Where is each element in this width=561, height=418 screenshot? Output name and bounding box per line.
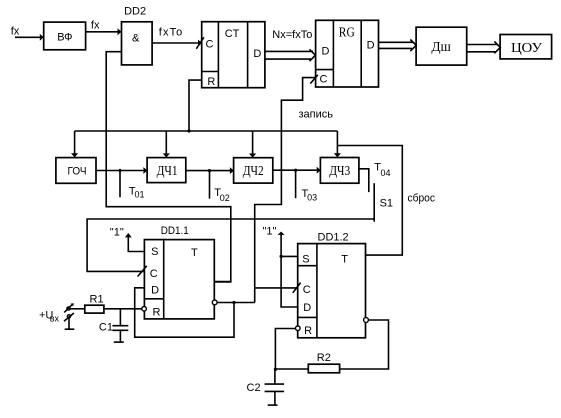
node junction dot DD1.1 output	[232, 301, 235, 304]
svg-text:fx: fx	[91, 19, 100, 31]
svg-text:вх: вх	[50, 314, 60, 324]
label C2	[247, 382, 261, 394]
node fx label on VF-DD2 wire	[91, 19, 100, 31]
svg-text:C1: C1	[99, 321, 113, 333]
svg-text:DD1.2: DD1.2	[318, 232, 349, 244]
block DCh2 divider	[234, 158, 273, 183]
svg-text:ЦОУ: ЦОУ	[511, 41, 542, 56]
block GOCh reference oscillator	[56, 158, 96, 184]
svg-text:R: R	[207, 76, 215, 88]
wire DD2 second input from DD1.1 direct output	[106, 52, 231, 282]
wire net to DD1.2 C input	[255, 287, 298, 289]
wire DD1.1 D feedback from Q inverse	[135, 288, 234, 337]
pin DD1.1 R inverse input bubble	[142, 307, 147, 312]
block Dsh decoder	[416, 27, 467, 65]
svg-text:fx: fx	[11, 26, 20, 38]
svg-text:CT: CT	[225, 28, 240, 40]
node T01 tap dot and tick	[118, 169, 121, 197]
svg-text:C: C	[320, 74, 328, 86]
wire DD1.1 S input to logic one arrow	[125, 233, 144, 252]
wire Dsh to TsOU (double line with chevron)	[467, 42, 501, 54]
node T03 label	[302, 188, 318, 202]
svg-text:01: 01	[135, 190, 145, 200]
svg-text:04: 04	[381, 168, 391, 178]
pin DD1.1 inverse output bubble	[212, 300, 217, 305]
node S1 label	[380, 198, 393, 210]
flip-flop DD1.1	[144, 240, 214, 319]
svg-text:C: C	[206, 39, 214, 51]
resistor R2	[308, 364, 339, 373]
svg-text:Nx=fxTo: Nx=fxTo	[272, 29, 312, 41]
wire DD1.2 S and D tie with logic one arrow	[278, 232, 298, 308]
svg-text:T: T	[191, 247, 198, 259]
label DD1.2	[318, 232, 349, 244]
block DCh1 divider	[147, 158, 186, 183]
wire bus arrow into DCh3	[334, 131, 341, 157]
svg-text:R: R	[153, 306, 161, 318]
svg-text:S: S	[302, 253, 309, 265]
wire CT R input to reset bus	[189, 80, 202, 131]
wire DCh1 to DCh2 with arrow	[186, 167, 234, 174]
svg-text:C2: C2	[247, 382, 261, 394]
svg-text:ДЧ1: ДЧ1	[157, 164, 178, 179]
svg-text:03: 03	[307, 192, 317, 202]
svg-text:D: D	[367, 40, 375, 52]
svg-text:запись: запись	[299, 109, 334, 121]
svg-text:D: D	[151, 284, 159, 296]
node T01 label	[129, 186, 145, 200]
svg-text:сброс: сброс	[408, 193, 436, 205]
svg-text:fxTo: fxTo	[159, 26, 183, 38]
label C1	[99, 321, 113, 333]
svg-text:ВФ: ВФ	[57, 31, 72, 43]
svg-text:D: D	[303, 302, 311, 314]
wire bus arrow into DCh1	[163, 131, 170, 158]
wire CT D output bus to RG (double line with chevron)	[265, 49, 316, 61]
node logic one label DD1.2	[263, 225, 277, 237]
wire zapis from RG C down to DD1.2 C net	[255, 78, 316, 303]
svg-text:ГОЧ: ГОЧ	[68, 166, 87, 178]
pin RG C dynamic input slash	[310, 75, 318, 84]
svg-text:&: &	[132, 32, 140, 44]
wire R1 to DD1.1 R input	[104, 308, 142, 310]
svg-text:DD1.1: DD1.1	[161, 225, 189, 237]
svg-text:R2: R2	[317, 352, 331, 364]
resistor R1	[85, 305, 104, 313]
wire DD1.2 R input to R2 C2 junction	[275, 329, 295, 370]
svg-text:S1: S1	[380, 198, 393, 210]
node sbros label	[408, 193, 436, 205]
switch SB input button	[64, 303, 74, 329]
wire DCh3 output stub to switch	[359, 169, 369, 192]
wire sbros from DD1.2 output to bus	[337, 146, 402, 256]
pin DD1.2 C dynamic input slash	[293, 283, 301, 293]
svg-text:T: T	[341, 253, 348, 265]
node junction dot bus CT R tap	[187, 129, 190, 132]
wire fx to VF with arrow	[15, 34, 44, 41]
svg-text:ДЧ2: ДЧ2	[243, 164, 264, 179]
flip-flop DD1.2	[298, 244, 366, 338]
pin CT C dynamic input slash	[196, 37, 204, 49]
wire bus arrow into GOCh	[71, 131, 78, 157]
svg-text:"1": "1"	[110, 227, 124, 239]
svg-text:ДЧ3: ДЧ3	[329, 164, 350, 179]
node T02 tap dot and tick	[208, 169, 211, 199]
gate DD2 AND	[122, 22, 153, 65]
svg-text:Дш: Дш	[431, 40, 451, 55]
block VF (input shaper)	[44, 22, 86, 50]
svg-text:C: C	[150, 268, 158, 280]
node junction dot R2 C2	[274, 368, 277, 371]
capacitor C1	[112, 309, 128, 342]
node T03 tap dot and tick	[294, 169, 297, 199]
node zapis label	[299, 109, 334, 121]
node T04 label	[374, 162, 390, 178]
svg-text:D: D	[322, 46, 330, 58]
node T02 label	[214, 187, 230, 203]
node logic one label DD1.1	[110, 227, 124, 239]
wire DD2 output to CT C with arrow	[152, 40, 202, 47]
node +Uvx label	[39, 310, 59, 324]
node junction dot DD1.2 S	[280, 255, 283, 258]
svg-text:R1: R1	[90, 293, 104, 305]
wire RG output to Dsh (double line with chevron)	[379, 40, 417, 52]
wire DCh2 to DCh3 with arrow	[273, 167, 321, 174]
wire DD1.1 inverse output to net	[217, 302, 255, 304]
register RG	[316, 20, 379, 87]
node fx input label	[11, 26, 20, 38]
wire bus arrow into DCh2	[249, 131, 256, 158]
svg-text:"1": "1"	[263, 225, 277, 237]
label DD2	[124, 5, 146, 17]
node fxTo label	[159, 26, 183, 38]
node Nx=fxTo label	[272, 29, 312, 41]
wire reset bus horizontal	[75, 130, 338, 132]
svg-text:D: D	[253, 48, 261, 60]
block TsOU digital display	[500, 35, 551, 59]
pin DD1.1 C dynamic input slash	[138, 266, 147, 277]
svg-text:C: C	[303, 284, 311, 296]
label R1	[90, 293, 104, 305]
svg-text:DD2: DD2	[124, 5, 146, 17]
svg-text:R: R	[304, 325, 312, 337]
capacitor C2	[265, 369, 285, 405]
svg-text:02: 02	[220, 193, 230, 203]
wire DD1.2 inverse output through R2	[340, 320, 389, 369]
svg-text:S: S	[151, 246, 158, 258]
wire DD1.1 direct output to DD2 branch	[214, 281, 231, 283]
wire VF to DD2 with arrow	[86, 28, 122, 35]
svg-text:RG: RG	[339, 25, 355, 40]
block DCh3 divider	[320, 158, 359, 184]
wire R2 to junction	[275, 368, 308, 370]
counter CT	[202, 22, 265, 88]
label R2	[317, 352, 331, 364]
pin DD1.2 inverse output bubble	[364, 318, 369, 323]
switch S1 contact bar	[373, 183, 375, 222]
wire button to R1	[70, 308, 85, 310]
pin DD1.2 R inverse input bubble	[296, 326, 301, 331]
wire S1 line to DD1.1 C input	[87, 219, 374, 271]
wire GOCh to DCh1 with arrow	[96, 167, 147, 174]
label DD1.1	[161, 225, 189, 237]
